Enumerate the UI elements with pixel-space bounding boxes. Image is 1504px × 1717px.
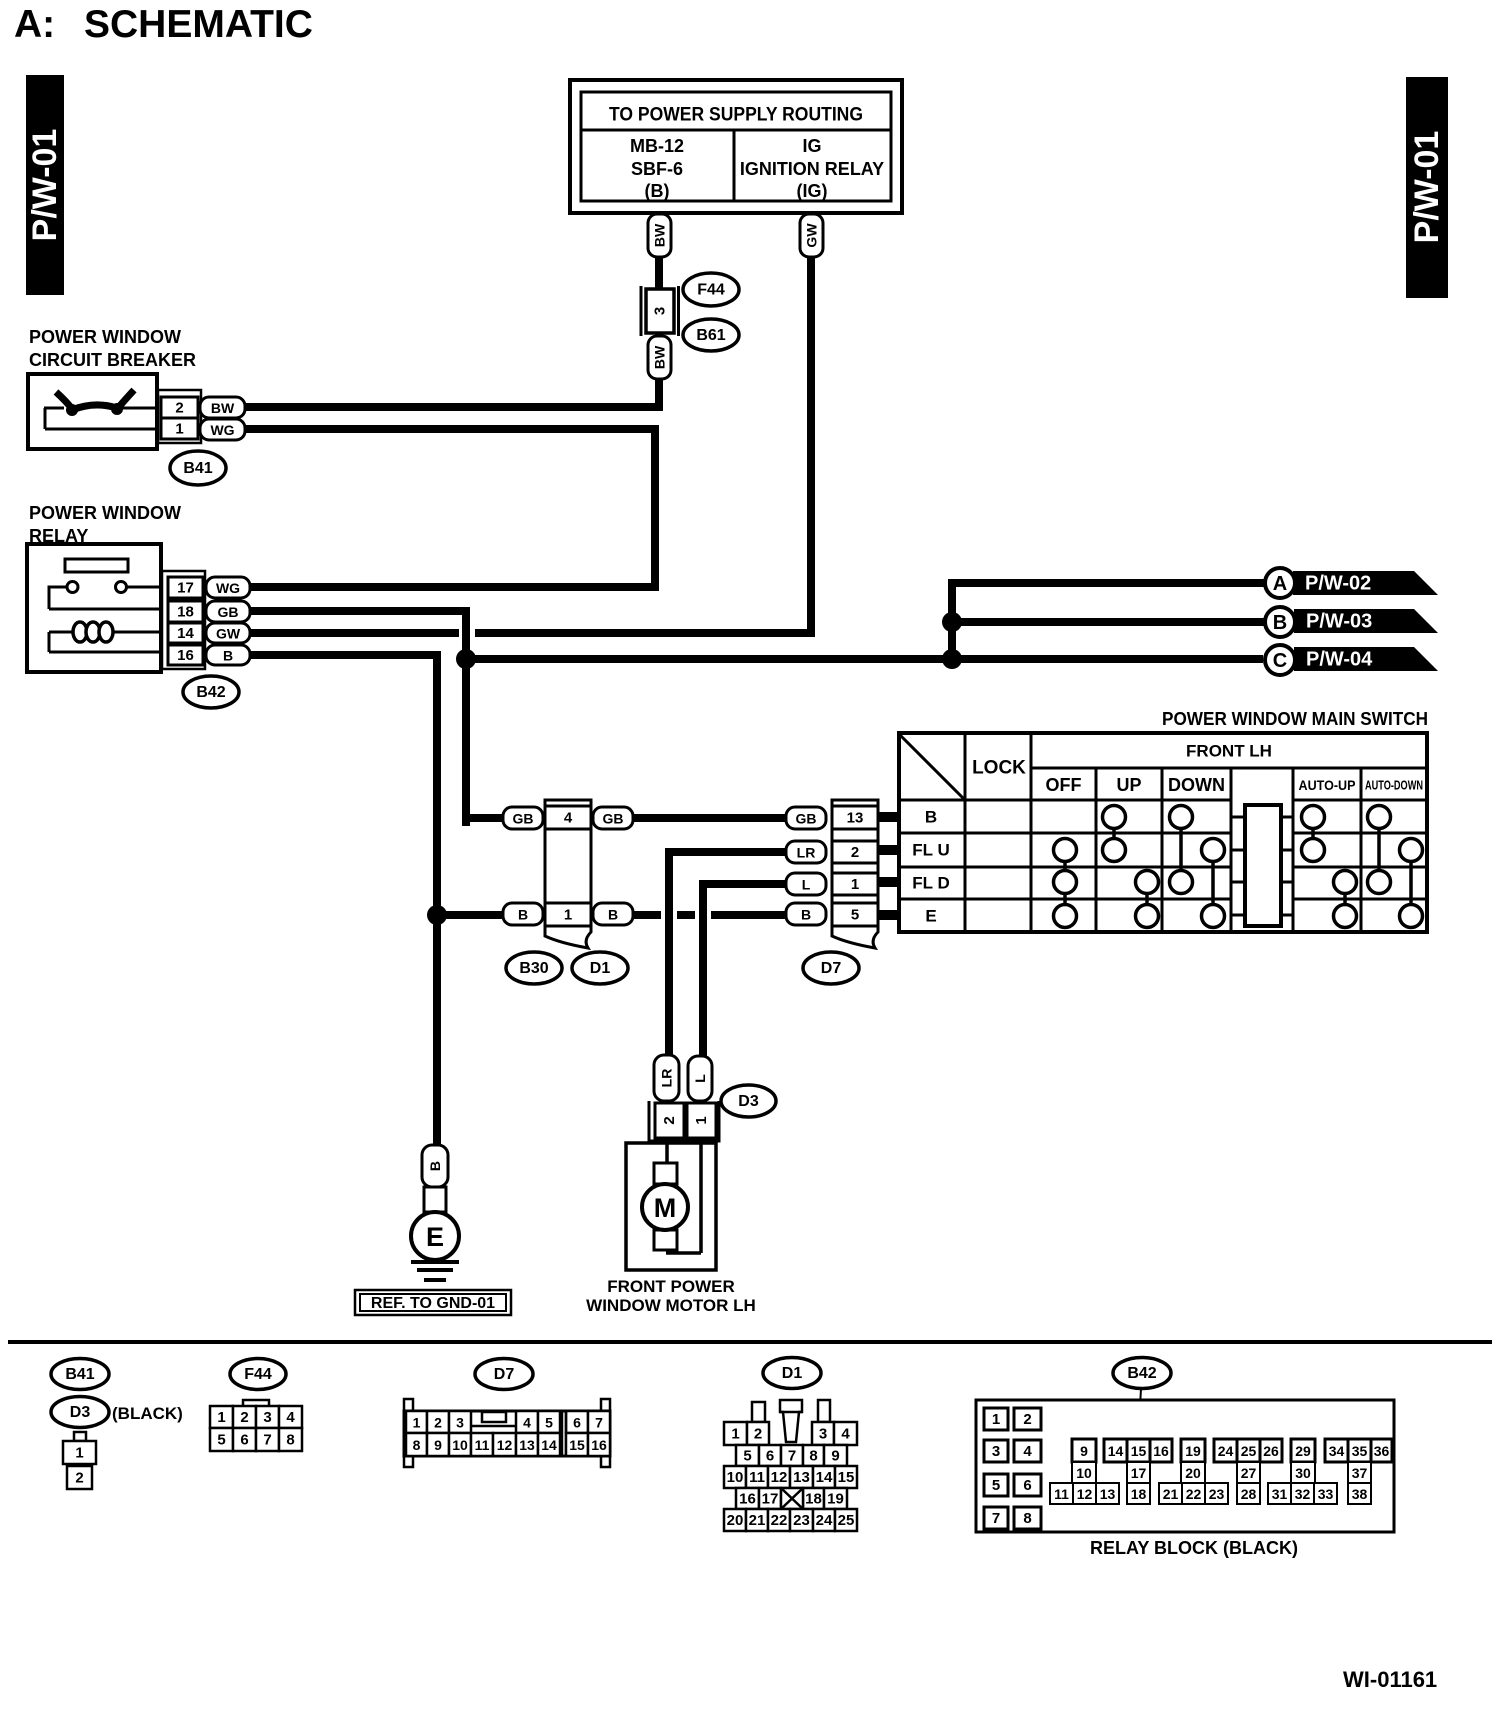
svg-text:31: 31 xyxy=(1272,1486,1288,1502)
connector oval D1 (legend) xyxy=(763,1358,821,1389)
svg-text:11: 11 xyxy=(749,1469,765,1486)
svg-text:7: 7 xyxy=(263,1432,271,1449)
title A: SCHEMATIC xyxy=(14,3,313,46)
wire label LR (motor pin 2) xyxy=(654,1055,679,1101)
svg-text:P/W-02: P/W-02 xyxy=(1305,573,1371,595)
svg-text:15: 15 xyxy=(838,1469,855,1486)
svg-text:16: 16 xyxy=(1153,1443,1169,1459)
wire label GB (D1 right) xyxy=(593,807,633,829)
ground symbol xyxy=(411,1262,459,1280)
fuse 3 (F44/B61) xyxy=(641,286,679,336)
wire stubs D7 to switch table xyxy=(878,812,899,920)
power supply routing box xyxy=(570,80,902,213)
wire WG from breaker pin 1 down to relay pin 17 xyxy=(245,425,659,591)
wire GB from B30 to D7 pin 13 xyxy=(633,814,786,822)
svg-text:FL D: FL D xyxy=(912,874,949,893)
junction at arrow C line xyxy=(942,649,962,669)
connector oval D3 xyxy=(721,1085,776,1117)
svg-text:3: 3 xyxy=(263,1409,271,1426)
svg-text:B: B xyxy=(223,648,233,664)
right page banner P/W-01 xyxy=(1406,77,1448,298)
left page banner P/W-01 xyxy=(26,75,64,295)
svg-text:B61: B61 xyxy=(696,327,725,344)
relay block B42 pinout xyxy=(976,1400,1394,1532)
wire label BW (below fuse) xyxy=(648,336,671,379)
connector B42 housing at relay xyxy=(162,571,205,669)
node C circle xyxy=(1265,645,1295,675)
svg-text:6: 6 xyxy=(240,1432,248,1449)
svg-text:2: 2 xyxy=(434,1415,442,1431)
svg-text:13: 13 xyxy=(847,810,864,827)
svg-text:15: 15 xyxy=(1131,1443,1147,1459)
svg-text:WG: WG xyxy=(216,580,240,596)
wire LR from D7 pin 2 down to motor xyxy=(665,848,786,1057)
svg-text:B42: B42 xyxy=(1127,1365,1156,1382)
svg-text:21: 21 xyxy=(749,1512,766,1529)
svg-text:D3: D3 xyxy=(738,1093,759,1110)
svg-text:12: 12 xyxy=(497,1437,513,1453)
svg-text:3: 3 xyxy=(992,1443,1000,1460)
svg-text:BW: BW xyxy=(652,223,668,247)
svg-text:19: 19 xyxy=(827,1491,844,1508)
svg-text:A: A xyxy=(1273,573,1287,595)
svg-text:12: 12 xyxy=(771,1469,788,1486)
wire label WG (relay pin 17) xyxy=(206,577,250,598)
svg-text:14: 14 xyxy=(541,1437,557,1453)
svg-text:B41: B41 xyxy=(65,1366,94,1383)
wire GW from supply box down and left to relay pin 14 xyxy=(250,211,815,637)
wire label LR (D7 pin 2) xyxy=(786,841,826,863)
svg-text:B: B xyxy=(518,907,528,923)
svg-text:27: 27 xyxy=(1241,1465,1257,1481)
svg-text:34: 34 xyxy=(1329,1443,1345,1459)
svg-text:DOWN: DOWN xyxy=(1168,775,1225,795)
svg-text:17: 17 xyxy=(1131,1465,1147,1481)
wire label GB (B30 left) xyxy=(503,807,543,829)
svg-text:RELAY BLOCK (BLACK): RELAY BLOCK (BLACK) xyxy=(1090,1538,1298,1558)
svg-text:FRONT LH: FRONT LH xyxy=(1186,742,1272,761)
svg-text:20: 20 xyxy=(1185,1465,1201,1481)
wire label B (D7 pin 5) xyxy=(786,903,826,925)
svg-text:BW: BW xyxy=(652,345,668,369)
svg-text:7: 7 xyxy=(992,1510,1000,1527)
connector oval B30 xyxy=(506,952,562,984)
svg-text:1: 1 xyxy=(75,1445,83,1462)
wire GB from relay pin 18 down to B30 pin 4 xyxy=(250,607,507,826)
svg-text:18: 18 xyxy=(177,604,194,621)
svg-text:12: 12 xyxy=(1077,1486,1093,1502)
svg-text:18: 18 xyxy=(805,1491,822,1508)
ground terminal square xyxy=(424,1187,446,1212)
svg-text:9: 9 xyxy=(1080,1443,1088,1459)
svg-text:B: B xyxy=(801,907,811,923)
contacts AUTO-UP column xyxy=(1302,806,1357,928)
svg-text:AUTO-DOWN: AUTO-DOWN xyxy=(1365,778,1423,793)
svg-text:AUTO-UP: AUTO-UP xyxy=(1299,777,1356,793)
connector oval B41 xyxy=(170,451,226,485)
svg-text:2: 2 xyxy=(75,1470,83,1487)
svg-text:C: C xyxy=(1273,650,1287,672)
power window main switch table frame xyxy=(899,733,1427,932)
svg-text:16: 16 xyxy=(739,1491,756,1508)
svg-text:GW: GW xyxy=(804,223,820,248)
connector oval B42 xyxy=(183,676,239,708)
connector oval D3 (legend) xyxy=(51,1397,109,1428)
svg-text:D1: D1 xyxy=(590,960,611,977)
svg-text:23: 23 xyxy=(1209,1486,1225,1502)
svg-text:TO POWER SUPPLY ROUTING: TO POWER SUPPLY ROUTING xyxy=(609,105,863,126)
svg-text:23: 23 xyxy=(793,1512,810,1529)
circuit breaker CB xyxy=(28,374,157,449)
svg-text:5: 5 xyxy=(851,907,859,924)
table header texts xyxy=(972,742,1423,796)
svg-text:B: B xyxy=(608,907,618,923)
svg-text:LOCK: LOCK xyxy=(972,758,1026,779)
svg-text:26: 26 xyxy=(1263,1443,1279,1459)
svg-text:10: 10 xyxy=(727,1469,744,1486)
wire BW below fuse turning left to breaker xyxy=(245,333,663,411)
svg-text:LR: LR xyxy=(659,1069,675,1088)
svg-text:E: E xyxy=(925,907,936,926)
wire to arrow B xyxy=(952,618,1264,626)
svg-text:21: 21 xyxy=(1163,1486,1179,1502)
svg-text:28: 28 xyxy=(1241,1486,1257,1502)
ref to gnd-01 box xyxy=(355,1290,511,1315)
junction GB branch xyxy=(456,649,476,669)
svg-text:D3: D3 xyxy=(70,1404,91,1421)
wire label L (motor pin 1) xyxy=(688,1056,712,1101)
connector B41 housing xyxy=(158,390,201,443)
svg-text:1: 1 xyxy=(175,421,183,438)
wire label GB (relay pin 18) xyxy=(206,601,250,622)
svg-text:4: 4 xyxy=(564,810,573,827)
svg-text:25: 25 xyxy=(838,1512,855,1529)
connector oval F44 xyxy=(683,273,739,306)
svg-text:3: 3 xyxy=(819,1426,827,1443)
svg-text:BW: BW xyxy=(211,400,235,416)
svg-text:D1: D1 xyxy=(782,1365,803,1382)
svg-text:WG: WG xyxy=(210,422,234,438)
connector strip D7 at switch xyxy=(832,800,878,948)
svg-text:UP: UP xyxy=(1116,775,1141,795)
svg-text:6: 6 xyxy=(573,1415,581,1431)
svg-text:8: 8 xyxy=(413,1437,421,1453)
wire label GB (D7 pin 13) xyxy=(786,807,826,829)
svg-text:B: B xyxy=(427,1161,443,1171)
svg-text:WI-01161: WI-01161 xyxy=(1343,1667,1437,1692)
svg-text:E: E xyxy=(426,1222,444,1252)
svg-text:B42: B42 xyxy=(196,684,225,701)
svg-text:P/W-03: P/W-03 xyxy=(1306,611,1372,633)
svg-text:14: 14 xyxy=(177,625,194,642)
leader line B42 to pin 15 xyxy=(1138,1389,1141,1440)
svg-text:2: 2 xyxy=(240,1409,248,1426)
svg-text:1: 1 xyxy=(413,1415,421,1431)
svg-text:22: 22 xyxy=(1186,1486,1202,1502)
svg-text:19: 19 xyxy=(1185,1443,1201,1459)
svg-text:1: 1 xyxy=(693,1116,710,1124)
svg-text:L: L xyxy=(802,877,811,893)
svg-text:GB: GB xyxy=(603,811,624,827)
svg-text:20: 20 xyxy=(727,1512,744,1529)
svg-text:24: 24 xyxy=(1218,1443,1234,1459)
wire label GW xyxy=(800,214,823,257)
svg-text:FL U: FL U xyxy=(912,841,949,860)
node A circle xyxy=(1265,568,1295,598)
svg-text:2: 2 xyxy=(661,1116,678,1124)
svg-text:2: 2 xyxy=(851,844,859,861)
wire B horizontal to B30 pin 1 and D7 pin 5 (with crossover breaks) xyxy=(437,911,786,919)
svg-text:30: 30 xyxy=(1295,1465,1311,1481)
relay (power window relay) xyxy=(27,544,161,672)
svg-text:(BLACK): (BLACK) xyxy=(112,1404,183,1423)
svg-text:D7: D7 xyxy=(821,960,842,977)
svg-text:25: 25 xyxy=(1241,1443,1257,1459)
switch actuator bar xyxy=(1231,805,1293,926)
wire label WG (breaker pin 1) xyxy=(200,419,245,440)
separator line xyxy=(8,1340,1492,1344)
connector oval B41 (legend) xyxy=(51,1359,109,1390)
junction B wire at ground branch xyxy=(427,905,447,925)
svg-text:F44: F44 xyxy=(244,1366,272,1383)
wire label BW (breaker pin 2) xyxy=(200,397,245,418)
svg-text:5: 5 xyxy=(743,1448,751,1465)
arrow banner A P/W-02 xyxy=(1293,571,1438,595)
svg-text:2: 2 xyxy=(1023,1411,1031,1428)
svg-text:18: 18 xyxy=(1131,1486,1147,1502)
connector D1 pinout xyxy=(724,1400,857,1531)
svg-text:3: 3 xyxy=(456,1415,464,1431)
svg-text:B41: B41 xyxy=(183,460,212,477)
svg-text:D7: D7 xyxy=(494,1366,515,1383)
wire L from D7 pin 1 down to motor xyxy=(699,880,786,1058)
svg-text:13: 13 xyxy=(519,1437,535,1453)
svg-text:F44: F44 xyxy=(697,282,725,299)
contacts UP column xyxy=(1103,806,1159,928)
svg-text:35: 35 xyxy=(1352,1443,1368,1459)
connector F44 pinout xyxy=(210,1400,302,1451)
contacts AUTO-DOWN column xyxy=(1368,806,1423,928)
svg-text:4: 4 xyxy=(841,1426,850,1443)
svg-text:REF. TO GND-01: REF. TO GND-01 xyxy=(371,1295,495,1312)
svg-text:POWER WINDOW: POWER WINDOW xyxy=(29,503,181,523)
svg-text:3: 3 xyxy=(652,307,669,315)
svg-text:GW: GW xyxy=(216,626,241,642)
contacts DOWN column xyxy=(1170,806,1225,928)
wire B from relay pin 16 down to ground xyxy=(250,651,441,1145)
svg-text:1: 1 xyxy=(217,1409,225,1426)
svg-text:IGNITION RELAY: IGNITION RELAY xyxy=(740,159,884,179)
svg-text:33: 33 xyxy=(1318,1486,1334,1502)
svg-text:11: 11 xyxy=(1054,1486,1069,1502)
svg-text:SCHEMATIC: SCHEMATIC xyxy=(84,3,313,46)
svg-text:L: L xyxy=(692,1074,708,1083)
svg-text:1: 1 xyxy=(731,1426,739,1443)
svg-text:POWER WINDOW: POWER WINDOW xyxy=(29,327,181,347)
svg-text:36: 36 xyxy=(1374,1443,1390,1459)
wire label BW (top) xyxy=(648,214,671,257)
wire BW from supply box to fuse xyxy=(655,211,663,290)
svg-text:A:: A: xyxy=(14,3,55,46)
svg-text:15: 15 xyxy=(569,1437,585,1453)
svg-text:9: 9 xyxy=(831,1448,839,1465)
wire label B (ground wire) xyxy=(422,1145,448,1187)
svg-text:M: M xyxy=(654,1193,677,1223)
wire vertical joining arrows A B C xyxy=(948,579,956,663)
svg-text:4: 4 xyxy=(286,1409,295,1426)
label power window relay xyxy=(29,503,181,546)
svg-text:(IG): (IG) xyxy=(797,181,828,201)
junction at arrow B line xyxy=(942,612,962,632)
svg-text:10: 10 xyxy=(1076,1465,1092,1481)
svg-text:4: 4 xyxy=(523,1415,531,1431)
svg-text:WINDOW MOTOR LH: WINDOW MOTOR LH xyxy=(586,1296,756,1315)
svg-text:MB-12: MB-12 xyxy=(630,136,684,156)
label power window circuit breaker xyxy=(29,327,196,370)
svg-text:P/W-01: P/W-01 xyxy=(1408,131,1446,244)
svg-text:6: 6 xyxy=(766,1448,774,1465)
connector D7 pinout xyxy=(404,1399,610,1467)
svg-text:32: 32 xyxy=(1295,1486,1311,1502)
svg-text:GB: GB xyxy=(513,811,534,827)
node B circle xyxy=(1265,607,1295,637)
svg-text:8: 8 xyxy=(1023,1510,1031,1527)
svg-text:P/W-01: P/W-01 xyxy=(26,129,64,242)
svg-text:LR: LR xyxy=(797,845,816,861)
svg-text:POWER WINDOW MAIN SWITCH: POWER WINDOW MAIN SWITCH xyxy=(1162,709,1428,729)
svg-text:16: 16 xyxy=(591,1437,607,1453)
wire label B (relay pin 16) xyxy=(206,645,250,665)
table row labels xyxy=(912,808,949,926)
label front power window motor LH xyxy=(586,1277,756,1315)
connector oval B42 (legend) xyxy=(1113,1358,1171,1389)
svg-text:9: 9 xyxy=(434,1437,442,1453)
svg-text:GB: GB xyxy=(796,811,817,827)
connector B41/D3 pinout xyxy=(63,1432,96,1489)
svg-text:14: 14 xyxy=(816,1469,833,1486)
svg-text:38: 38 xyxy=(1352,1486,1368,1502)
svg-text:B: B xyxy=(1273,612,1287,634)
svg-text:(B): (B) xyxy=(645,181,670,201)
svg-text:7: 7 xyxy=(788,1448,796,1465)
svg-text:37: 37 xyxy=(1352,1465,1368,1481)
svg-text:22: 22 xyxy=(771,1512,788,1529)
svg-text:24: 24 xyxy=(816,1512,833,1529)
svg-text:14: 14 xyxy=(1108,1443,1124,1459)
svg-text:7: 7 xyxy=(595,1415,603,1431)
arrow banner C P/W-04 xyxy=(1294,647,1438,671)
svg-text:8: 8 xyxy=(809,1448,817,1465)
connector oval B61 xyxy=(683,319,739,351)
svg-text:13: 13 xyxy=(793,1469,810,1486)
svg-text:FRONT POWER: FRONT POWER xyxy=(607,1277,735,1296)
wire label B (D1 right) xyxy=(593,903,633,925)
front power window motor LH xyxy=(626,1141,716,1270)
wire GB branch to arrows A B C xyxy=(462,655,1263,663)
svg-text:5: 5 xyxy=(545,1415,553,1431)
connector oval D7 (legend) xyxy=(475,1359,533,1390)
svg-text:5: 5 xyxy=(992,1477,1000,1494)
svg-text:29: 29 xyxy=(1295,1443,1311,1459)
svg-text:16: 16 xyxy=(177,647,194,664)
connector oval D1 xyxy=(572,952,628,984)
contacts OFF column xyxy=(1054,839,1077,928)
svg-text:13: 13 xyxy=(1100,1486,1116,1502)
svg-text:P/W-04: P/W-04 xyxy=(1306,649,1373,671)
svg-text:2: 2 xyxy=(175,400,183,417)
wire label GW (relay pin 14) xyxy=(206,623,250,643)
connector D3 housing at motor xyxy=(649,1101,719,1141)
svg-text:11: 11 xyxy=(475,1437,490,1453)
svg-text:OFF: OFF xyxy=(1046,775,1082,795)
svg-text:6: 6 xyxy=(1023,1477,1031,1494)
svg-text:B30: B30 xyxy=(519,960,548,977)
svg-text:1: 1 xyxy=(992,1411,1000,1428)
wire label B (B30 left) xyxy=(503,903,543,925)
svg-text:8: 8 xyxy=(286,1432,294,1449)
wire to arrow A xyxy=(952,579,1264,587)
connector oval F44 (legend) xyxy=(230,1359,286,1390)
svg-text:17: 17 xyxy=(762,1491,779,1508)
svg-text:B: B xyxy=(925,808,937,827)
svg-text:1: 1 xyxy=(851,876,859,893)
svg-text:10: 10 xyxy=(452,1437,468,1453)
connector strip B30/D1 xyxy=(545,800,591,948)
svg-text:SBF-6: SBF-6 xyxy=(631,159,683,179)
svg-text:1: 1 xyxy=(564,907,572,924)
svg-text:CIRCUIT BREAKER: CIRCUIT BREAKER xyxy=(29,350,196,370)
svg-text:2: 2 xyxy=(754,1426,762,1443)
svg-text:17: 17 xyxy=(177,580,194,597)
connector oval D7 xyxy=(803,952,859,984)
ground node E xyxy=(411,1212,459,1260)
arrow banner B P/W-03 xyxy=(1294,609,1438,633)
wire label L (D7 pin 1) xyxy=(786,873,826,895)
svg-text:GB: GB xyxy=(218,604,239,620)
svg-text:5: 5 xyxy=(217,1432,225,1449)
svg-text:IG: IG xyxy=(802,136,821,156)
svg-text:4: 4 xyxy=(1023,1443,1032,1460)
